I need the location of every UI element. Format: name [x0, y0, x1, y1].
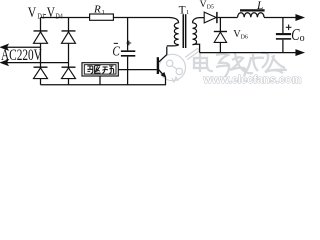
svg-text:R: R: [93, 4, 101, 16]
svg-text:D5: D5: [207, 4, 214, 10]
svg-text:C: C: [112, 43, 120, 58]
svg-text:V: V: [28, 4, 37, 21]
svg-text:o: o: [300, 33, 305, 44]
svg-text:AC220V: AC220V: [1, 46, 42, 63]
svg-text:T: T: [179, 5, 186, 17]
svg-text:D6: D6: [241, 34, 248, 40]
svg-text:D4: D4: [55, 12, 63, 21]
svg-text:V: V: [47, 4, 56, 21]
svg-text:1: 1: [102, 9, 105, 16]
svg-text:-: -: [44, 8, 47, 19]
svg-text:www.elecfans.com: www.elecfans.com: [203, 74, 302, 86]
svg-text:1: 1: [186, 9, 189, 16]
svg-text:L: L: [256, 0, 263, 12]
svg-text:V: V: [200, 0, 207, 10]
